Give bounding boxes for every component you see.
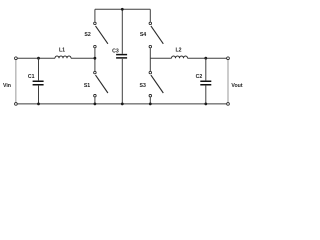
svg-text:S3: S3: [140, 83, 146, 89]
node bottom rail / C1 junction: [37, 103, 40, 106]
wire right column middle (S4 to S3 through mid rail): [149, 48, 151, 71]
wire C2 top drop: [205, 58, 207, 80]
wire bottom rail: [18, 103, 227, 105]
svg-text:C2: C2: [196, 74, 203, 80]
switch S4: [140, 22, 163, 48]
wire right column bottom (S3 to bottom rail): [149, 97, 151, 104]
wire C3 top drop: [121, 9, 123, 54]
svg-text:Vout: Vout: [231, 83, 242, 89]
svg-text:S4: S4: [140, 32, 146, 38]
node bottom rail / S3 junction: [149, 103, 152, 106]
svg-text:C1: C1: [28, 74, 35, 80]
capacitor C1: [28, 74, 44, 85]
switch S1: [84, 71, 108, 97]
inductor L1: [55, 48, 71, 59]
node C2 top junction: [204, 57, 207, 60]
terminal Vin bottom: [15, 103, 18, 106]
wire left column middle (S2 to S1 through mid rail): [94, 48, 96, 71]
wire top rail: [95, 8, 150, 10]
wire C3 bottom drop: [121, 59, 123, 104]
node mid-left rail / switch column junction: [94, 57, 97, 60]
switch S2: [84, 22, 107, 48]
wire C1 top drop: [38, 58, 40, 80]
node bottom rail / C3 junction: [121, 103, 124, 106]
svg-text:L2: L2: [175, 48, 181, 54]
svg-text:Vin: Vin: [3, 83, 11, 89]
wire mid-right rail (switch column to L2): [150, 57, 171, 59]
wire C2 bottom drop: [205, 86, 207, 104]
inductor L2: [172, 48, 188, 59]
terminal Vin top: [15, 57, 18, 60]
wire left column bottom (S1 to bottom rail): [94, 97, 96, 104]
wire mid-left rail: [18, 57, 55, 59]
node top rail / C3 junction: [121, 8, 124, 11]
terminal Vout top: [227, 57, 230, 60]
wire right column top (top rail to S4): [149, 9, 151, 22]
svg-text:S1: S1: [84, 83, 90, 89]
wire Vin port vertical: [15, 60, 17, 102]
node C1 top junction: [37, 57, 40, 60]
capacitor C3: [112, 48, 127, 58]
wire mid-right rail (L2 to Vout): [188, 57, 227, 59]
switch S3: [140, 71, 164, 97]
wire left column top (top rail to S2): [94, 9, 96, 22]
svg-text:S2: S2: [84, 32, 90, 38]
wire C1 bottom drop: [38, 86, 40, 104]
wire mid-left rail (L1 to switch column): [71, 57, 95, 59]
svg-text:C3: C3: [112, 48, 119, 54]
node bottom rail / C2 junction: [204, 103, 207, 106]
wire Vout port vertical: [227, 60, 229, 102]
capacitor C2: [196, 74, 212, 85]
terminal Vout bottom: [227, 103, 230, 106]
svg-text:L1: L1: [59, 48, 65, 54]
node bottom rail / S1 junction: [94, 103, 97, 106]
